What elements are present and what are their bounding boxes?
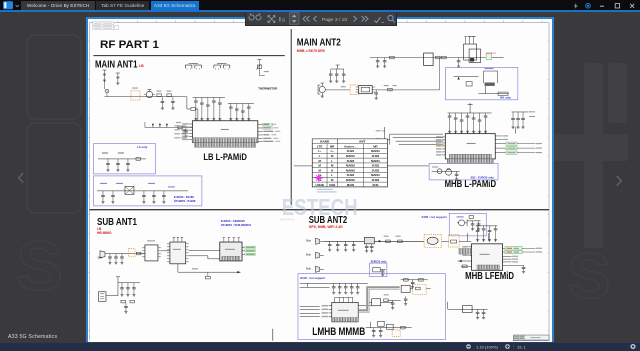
svg-text:LB L-PAMiD: LB L-PAMiD — [203, 153, 247, 163]
svg-text:a: a — [282, 17, 285, 23]
svg-text:RF PART 1: RF PART 1 — [100, 40, 159, 52]
svg-text:MAIN1: MAIN1 — [371, 159, 380, 163]
svg-text:EUROS : B1288: EUROS : B1288 — [174, 196, 194, 200]
svg-text:Page: Page — [322, 17, 334, 23]
svg-text:SUB2: SUB2 — [347, 159, 355, 163]
svg-text:OTHERS : B1288: OTHERS : B1288 — [174, 200, 196, 204]
svg-text:S: S — [16, 227, 63, 305]
svg-text:S: S — [568, 240, 611, 312]
svg-text:MAIN2: MAIN2 — [346, 178, 355, 182]
svg-text:MHB, n78/79 DRX: MHB, n78/79 DRX — [297, 50, 326, 54]
svg-text:LMHB MMMB: LMHB MMMB — [312, 327, 365, 339]
svg-text:EUROS : GEM0025: EUROS : GEM0025 — [221, 220, 246, 224]
svg-text:2 / 10: 2 / 10 — [335, 17, 347, 23]
svg-text:1.19 (100%): 1.19 (100%) — [476, 344, 498, 349]
svg-text:SUB2: SUB2 — [372, 164, 380, 168]
svg-text:THERMISTOR: THERMISTOR — [258, 87, 277, 91]
svg-text:NR: NR — [373, 145, 378, 149]
svg-text:LTE: LTE — [317, 145, 323, 149]
svg-text:LB: LB — [139, 65, 144, 69]
svg-text:Side: Side — [97, 257, 102, 260]
svg-text:SUB: SUB — [372, 183, 378, 187]
svg-text:MHB L-PAMiD: MHB L-PAMiD — [445, 179, 496, 190]
svg-text:NR: NR — [330, 145, 335, 149]
svg-text:MEMORIAL: MEMORIAL — [280, 218, 295, 222]
svg-text:HK only: HK only — [500, 96, 511, 100]
svg-text:Side: Side — [306, 239, 312, 243]
svg-text:L: L — [331, 174, 333, 178]
svg-text:MHB LFEMiD: MHB LFEMiD — [465, 272, 514, 283]
svg-text:SUB2: SUB2 — [347, 174, 355, 178]
svg-text:ANT: ANT — [359, 140, 365, 144]
svg-text:L: L — [331, 159, 333, 163]
svg-text:I: I — [279, 16, 281, 23]
svg-text:19, 1: 19, 1 — [517, 344, 527, 349]
svg-text:MAIN ANT2: MAIN ANT2 — [297, 38, 341, 49]
svg-text:Anchor↔: Anchor↔ — [344, 145, 357, 149]
svg-text:Side: Side — [306, 267, 312, 271]
svg-text:MAIN: MAIN — [347, 183, 354, 187]
svg-text:MAIN1: MAIN1 — [371, 174, 380, 178]
svg-text:MAIN1: MAIN1 — [371, 150, 380, 154]
svg-text:L: L — [319, 155, 321, 159]
svg-text:BAND: BAND — [320, 140, 330, 144]
svg-text:H: H — [331, 169, 333, 173]
svg-text:SUB ANT1: SUB ANT1 — [97, 217, 137, 228]
svg-text:OTHERS : SFM,SEM001: OTHERS : SFM,SEM001 — [221, 224, 252, 228]
svg-text:LA only: LA only — [137, 146, 148, 150]
svg-text:GPS, MHB, WiFi 2.4G: GPS, MHB, WiFi 2.4G — [309, 226, 343, 230]
svg-text:B32 : EUROS only: B32 : EUROS only — [471, 176, 495, 180]
svg-text:SUB2: SUB2 — [372, 178, 380, 182]
svg-text:SUB2: SUB2 — [372, 155, 380, 159]
svg-text:UHB: UHB — [329, 183, 335, 187]
svg-text:Side: Side — [306, 253, 312, 257]
svg-text:SUB2: SUB2 — [372, 169, 380, 173]
svg-text:MAIN ANT1: MAIN ANT1 — [95, 60, 138, 71]
svg-text:KOR : not support: KOR : not support — [300, 276, 325, 280]
svg-text:MAIN2: MAIN2 — [346, 169, 355, 173]
svg-text:HB MIMO: HB MIMO — [97, 232, 112, 236]
svg-text:MAIN1: MAIN1 — [346, 155, 355, 159]
svg-text:KOR : not support: KOR : not support — [422, 215, 447, 219]
svg-text:SUB1: SUB1 — [347, 150, 355, 154]
svg-text:MAIN2: MAIN2 — [346, 164, 355, 168]
svg-text:LMHB: LMHB — [315, 183, 323, 187]
